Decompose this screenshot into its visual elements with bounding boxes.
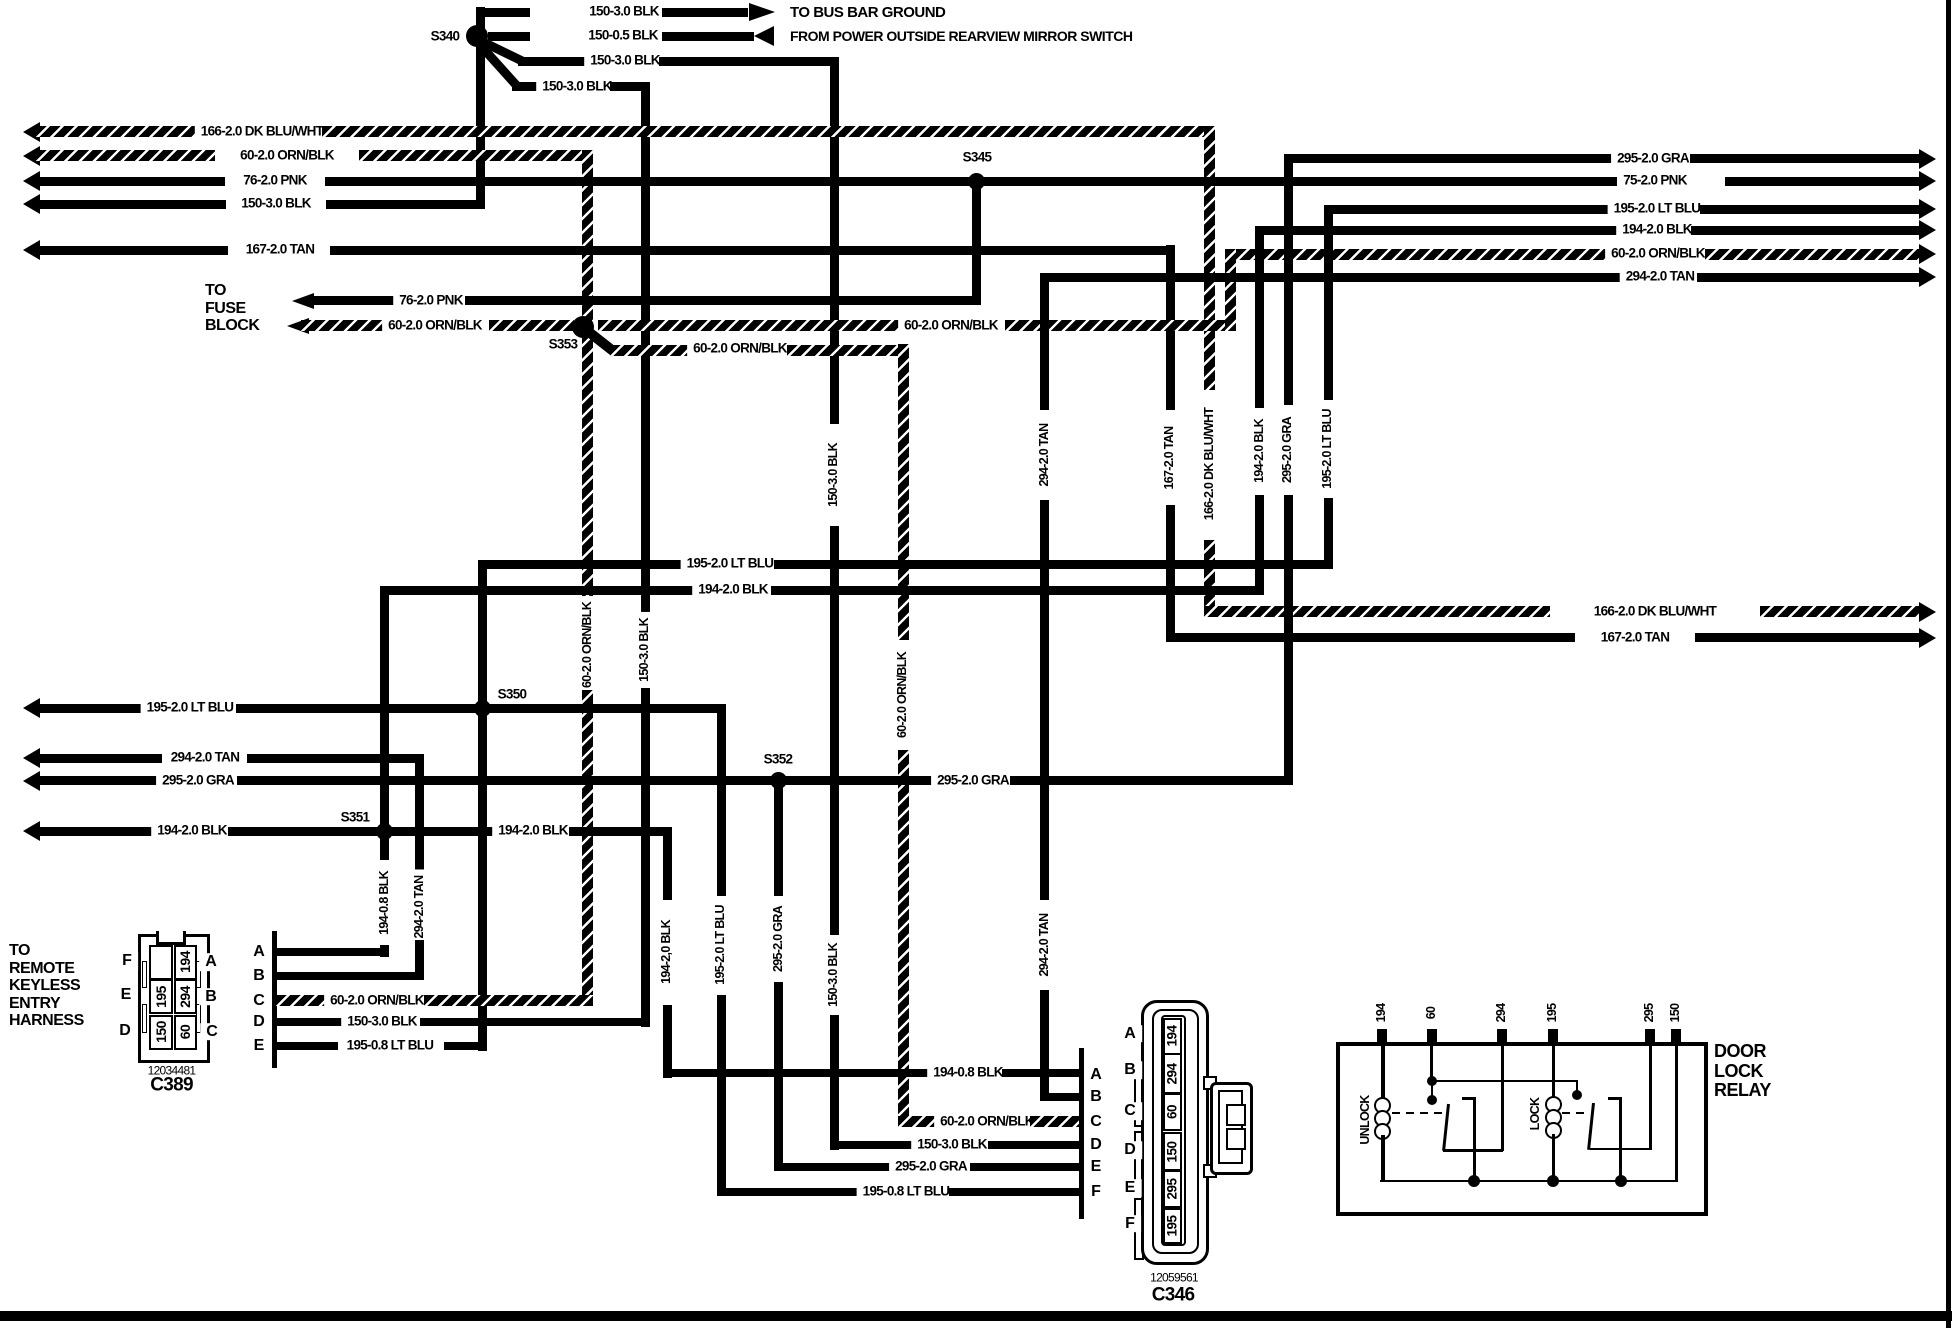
wire 150-3.0 BLK vertical to C346 D seg2 [830,526,839,935]
value label 194-2.0 BLK left [151,824,233,839]
value label 295-2.0 GRA left [156,773,240,788]
splice label S350 [498,688,527,703]
wire 150-3.0 BLK vertical from S340 [476,7,485,208]
arrow 195-2.0 LT BLU right [1919,199,1936,219]
pin letter A C389 drawing [199,953,223,971]
wire 150-3.0 BLK left seg2 [326,200,485,209]
wire 60-2.0 ORN/BLK fuse seg2 [489,320,574,331]
value label 194-2.0 BLK mid [692,583,774,598]
wire 195-0.8 LT BLU C346 pin F seg1 [717,1188,864,1196]
wire 194-2.0 BLK right seg1 [1264,226,1623,235]
wire 195-2.0 LT BLU right seg2 [1700,205,1921,214]
wire 60-2.0 ORN/BLK branch to C346 seg2 [787,345,909,356]
wire 194-2.0 BLK vertical seg2 [1255,495,1264,595]
wire 194-2.0 BLK left seg1 [36,827,161,836]
value label 60-2.0 ORN/BLK fuse [382,318,488,333]
value label 60-2.0 ORN/BLK [234,148,340,163]
wire 194-2.0 BLK mid seg2 [771,586,1264,595]
wire 195-2.0 LT BLU mid seg1 [487,560,686,569]
connector name C346 [1152,1286,1195,1307]
value label 166-2.0 DK BLU/WHT [195,124,329,139]
relay wire lock output [1590,1148,1650,1151]
wire 194-2.0 BLK mid2 seg2 [569,827,672,836]
wire 195-0.8 LT BLU C346 pin F seg2 [949,1188,1079,1196]
wire 194-2.0 BLK vertical seg1 [1255,226,1264,408]
wire 194-2.0 BLK S351 vertical seg1 [380,586,389,860]
value label 194-2.0 BLK vertical [1253,413,1267,489]
splice S353 [572,316,594,338]
relay pin 295 stub [1645,1029,1655,1043]
pin letter E C346 drawing [1119,1180,1142,1198]
wire 60-2.0 ORN/BLK vertical seg1 [582,150,593,600]
wire 166-2.0 DK BLU/WHT vertical seg1 [1204,126,1215,390]
wire 150-0.5 BLK seg1 [488,32,530,41]
wire 194-0.8 BLK C346 pin A seg2 [1002,1069,1079,1077]
connector C389 side strips [142,961,147,989]
wire 150-3.0 BLK branch3 seg1 [518,57,591,66]
wire C389 pin A [276,948,389,956]
value label 150-3.0 BLK branch4 [536,80,618,95]
wire 295-2.0 GRA right seg1 [1292,154,1618,163]
relay pin 294 wire [1501,1044,1504,1151]
pin letter A C346 [1084,1066,1108,1084]
wire 195-2.0 LT BLU vertical seg1 [1324,205,1333,401]
wire 195-2.0 LT BLU vertical to C346 F seg1 [717,704,726,897]
value label 60-2.0 ORN/BLK pin C [324,993,430,1008]
connector C389 body [138,934,210,1063]
relay pin label 150 [1669,998,1683,1029]
relay node lock rail [1547,1175,1559,1187]
wire 166-2.0 DK BLU/WHT seg2 [322,126,1215,137]
pin letter D C389 drawing [113,1022,137,1040]
wire 195-0.8 LT BLU C389 pin E seg1 [276,1042,338,1050]
wire 167-2.0 TAN seg1 [36,246,228,255]
wire 76-2.0 PNK seg1 [36,177,225,186]
wire 195-2.0 LT BLU left seg2 [236,704,726,713]
wire 194-2.0 BLK right seg2 [1691,226,1921,235]
value label 150-3.0 BLK vertical2 [638,612,652,688]
wire 194-0.8 BLK C346 pin A seg1 [663,1069,935,1077]
value label 195-0.8 LT BLU pin E [341,1039,440,1054]
value label 194-2.0 BLK right [1616,223,1698,238]
arrow 60-2.0 ORN/BLK to fuse block [287,318,309,334]
value label 60-2.0 ORN/BLK vertical2 [896,646,910,744]
value label 150-0.5 BLK [582,29,664,44]
relay dashed link unlock [1392,1112,1443,1114]
value label 75-2.0 PNK right [1617,174,1693,189]
wire 167-2.0 TAN right seg1 [1166,633,1575,642]
switch unlock fixed contact [1462,1097,1476,1100]
relay wire 60 to lock contact [1432,1080,1578,1082]
arrow 166-2.0 DK BLU/WHT right [1919,602,1936,622]
pin letter F C346 [1085,1183,1107,1201]
value label 194-2.0 BLK vertical2 [660,914,674,990]
relay pin 195 stub [1548,1029,1558,1043]
arrow 194-2.0 BLK right [1919,220,1936,240]
pin letter D C389 [247,1014,271,1032]
wire 195-2.0 LT BLU S350 vertical [478,560,487,1051]
wire 166-2.0 DK BLU/WHT right seg2 [1760,606,1921,617]
wire S340 branch diagonal lower [474,38,521,89]
value label 60-2.0 ORN/BLK pin C C346 [934,1114,1040,1129]
switch lock fixed contact [1608,1097,1622,1100]
node C389 bus [272,931,277,1068]
arrow 76-2.0 PNK [23,171,40,191]
relay node lock out rail [1615,1175,1627,1187]
text TO BUS BAR GROUND [790,4,945,21]
relay pin label 195 [1546,998,1560,1029]
pin letter F C346 drawing [1119,1215,1141,1233]
wire 294-2.0 TAN vertical to C389 B seg2 [415,940,424,980]
relay node lock contact [1572,1090,1582,1100]
wire 294-2.0 TAN right seg2 [1697,273,1921,282]
splice label S352 [764,753,793,768]
value label 150-3.0 BLK branch3 [584,54,666,69]
splice label S353 [549,338,578,353]
wire 60-2.0 ORN/BLK S353 right seg1 [598,320,902,331]
wire 150-3.0 BLK left seg1 [36,200,226,209]
value label 150-3.0 BLK pin D [341,1015,423,1030]
arrow 60-2.0 ORN/BLK right [1919,244,1936,264]
relay pin label 60 [1425,1001,1439,1026]
value label 295-2.0 GRA vertical2 [772,900,786,978]
arrow to bus bar ground [749,3,775,21]
wire 195-2.0 LT BLU right seg1 [1332,205,1613,214]
arrow 167-2.0 TAN right [1919,628,1936,648]
pin letter A C346 drawing [1118,1025,1142,1043]
wire 294-2.0 TAN left seg2 [247,754,424,763]
wire 150-3.0 BLK vertical to C389 D seg1 [641,82,650,612]
wire 60-2.0 ORN/BLK C346 pin C seg2 [1030,1116,1079,1127]
value label 294-2.0 TAN vertical2 [413,870,427,945]
text DOOR LOCK RELAY [1714,1042,1771,1101]
pin letter F C389 drawing [116,952,138,970]
wire 60-2.0 ORN/BLK vertical seg2 [582,690,593,1006]
wire 294-2.0 TAN C346 pin B [1040,1093,1079,1101]
connector name C389 [150,1076,193,1097]
pin letter D C346 drawing [1118,1142,1142,1160]
wire 60-2.0 ORN/BLK C389 pin C seg1 [276,995,332,1006]
wire 167-2.0 TAN vertical seg2 [1166,505,1175,642]
pin letter B C389 [247,967,271,985]
relay pin label 295 [1643,998,1657,1029]
wire 294-2.0 TAN vertical seg1b [1040,500,1049,900]
wire 167-2.0 TAN right seg2 [1695,633,1921,642]
value label 294-2.0 TAN vertical [1038,908,1052,983]
wire 150-3.0 BLK to bus bar ground seg2 [662,8,748,17]
wire 150-3.0 BLK vertical to C389 D seg2 [641,688,650,1027]
splice S350 [474,700,491,717]
arrow 75-2.0 PNK right [1919,171,1936,191]
relay ground rail [1380,1180,1678,1183]
switch lock arm [1587,1103,1594,1150]
node C346 bus [1079,1048,1084,1219]
wire 295-2.0 GRA vertical seg1 [1284,154,1293,405]
wire 60-2.0 ORN/BLK right seg1 [1236,249,1612,260]
relay pin 294 stub [1497,1029,1507,1043]
part number 12059561 [1150,1270,1198,1285]
arrow 295-2.0 GRA left [23,771,40,791]
wire 295-2.0 GRA vertical seg2 [1284,495,1293,785]
relay pin 60 wire [1430,1044,1433,1082]
value label 150-3.0 BLK vertical lower [827,937,841,1013]
value label 194-0.8 BLK pin A [927,1066,1009,1081]
connector C346 lock tab [1203,1076,1217,1090]
value label 60-2.0 ORN/BLK branch [687,342,793,357]
wire S345 vertical drop [972,181,981,305]
wire 194-2.0 BLK S351 vertical seg2 [380,945,389,957]
wire 150-3.0 BLK C389 pin D seg1 [276,1018,345,1026]
connector C346 left notches [1134,1065,1144,1127]
relay lock coil wire lower [1552,1134,1556,1181]
wire 295-2.0 GRA C346 pin E seg1 [774,1163,892,1171]
wire 150-3.0 BLK branch3 seg2 [659,57,839,66]
relay wire unlock to rail [1473,1151,1476,1181]
relay pin 60 stub [1427,1029,1437,1043]
wire 60-2.0 ORN/BLK branch to C346 seg1 [610,345,693,356]
wire 295-2.0 GRA left seg2 [237,776,936,785]
arrow 166-2.0 DK BLU/WHT [23,122,40,142]
splice S340 [466,25,488,47]
wire 294-2.0 TAN vertical to C389 B seg1 [415,754,424,875]
value label 195-2.0 LT BLU right [1608,202,1707,217]
relay node unlock rail [1468,1175,1480,1187]
wire 150-3.0 BLK vertical to C346 D seg1 [830,57,839,424]
value label 195-2.0 LT BLU left [141,701,240,716]
arrow 76-2.0 PNK to fuse block [292,293,314,309]
pin letter B C389 drawing [199,988,223,1006]
wire 194-2.0 BLK vertical to C346 A seg1 [663,827,672,901]
value label 195-2.0 LT BLU mid [681,557,780,572]
relay node unlock contact [1427,1095,1437,1105]
wire 150-3.0 BLK to bus bar ground seg1 [484,8,530,17]
relay pin 194 stub [1377,1029,1387,1043]
value label 195-0.8 LT BLU pin F [857,1184,956,1199]
wire 295-2.0 GRA S352 vertical seg1 [774,785,783,896]
relay pin 150 wire [1675,1044,1678,1181]
arrow 294-2.0 TAN left [23,748,40,768]
coil LOCK [1545,1096,1562,1113]
wire 195-2.0 LT BLU left seg1 [36,704,147,713]
relay pin 150 stub [1671,1029,1681,1043]
wire 75-2.0 PNK right seg [1725,177,1921,186]
wire 60-2.0 ORN/BLK vertical to C346 seg1 [898,344,909,640]
arrow from power mirror switch [754,26,774,46]
wire S340 branch diagonal upper [476,35,526,65]
pin letter D C346 [1084,1136,1108,1154]
coil UNLOCK [1374,1097,1391,1114]
value label 167-2.0 TAN vertical [1163,420,1177,495]
value label 60-2.0 ORN/BLK right [1605,247,1711,262]
splice S352 [770,772,787,789]
wire 295-2.0 GRA C346 pin E seg2 [970,1163,1079,1171]
relay node 60 upper [1427,1076,1437,1086]
pin letter B C346 drawing [1118,1062,1142,1080]
text UNLOCK [1359,1089,1373,1150]
splice label S345 [963,151,992,166]
pin letter C C389 drawing [200,1023,224,1041]
wire 166-2.0 DK BLU/WHT seg1 [36,126,202,137]
connector C346 body [1141,1000,1209,1266]
value label 195-2.0 LT BLU vertical [1321,403,1335,495]
wire 60-2.0 ORN/BLK S353 right seg2 [1005,320,1236,331]
wire 294-2.0 TAN right seg1 [1049,273,1623,282]
border bottom bar [0,1311,1952,1321]
arrow 194-2.0 BLK left [23,821,40,841]
relay pin 295 wire [1649,1044,1652,1150]
arrow 60-2.0 ORN/BLK [23,146,40,166]
wire 150-3.0 BLK branch4 seg1 [512,82,543,91]
wire C389 pin B [276,972,424,980]
wire 60-2.0 ORN/BLK C389 pin C seg2 [424,995,593,1006]
value label 60-2.0 ORN/BLK S353 right [898,318,1004,333]
pin letter C C389 [247,992,271,1010]
wire 294-2.0 TAN vertical seg2 [1040,990,1049,1101]
wire 295-2.0 GRA mid seg2 [1010,776,1293,785]
value label 166-2.0 DK BLU/WHT vertical [1203,402,1217,526]
part number 12034481 [148,1064,196,1079]
splice label S351 [341,811,370,826]
pin letter B C346 [1084,1088,1108,1106]
wire 150-3.0 BLK vertical to C346 D seg3 [830,1015,839,1150]
wire 294-2.0 TAN left seg1 [36,754,162,763]
connector C389 cells [149,945,172,980]
relay box DOOR LOCK RELAY [1336,1042,1707,1216]
relay pin label 194 [1375,998,1389,1029]
wire 60-2.0 ORN/BLK fuse seg1 [301,320,390,331]
wire 194-2.0 BLK left seg2 [228,827,497,836]
wire 167-2.0 TAN seg2 [330,246,1175,255]
value label 295-2.0 GRA pin E [889,1159,973,1174]
value label 167-2.0 TAN right [1595,630,1676,645]
wire 166-2.0 DK BLU/WHT right seg1 [1204,606,1550,617]
value label 295-2.0 GRA vertical [1281,411,1295,489]
pin letter E C389 [248,1038,271,1056]
wire 150-3.0 BLK C346 pin D seg1 [830,1141,916,1149]
splice label S340 [431,30,460,45]
relay pin label 294 [1495,998,1509,1029]
value label 60-2.0 ORN/BLK vertical [581,596,595,694]
wire 195-2.0 LT BLU mid seg2 [774,560,1333,569]
value label 76-2.0 PNK [237,174,313,189]
value label 150-3.0 BLK vertical [827,437,841,513]
wire 150-3.0 BLK branch4 seg2 [610,82,650,91]
value label 294-2.0 TAN vertical upper [1038,418,1052,493]
splice S351 [376,823,393,840]
value label 294-2.0 TAN right [1620,270,1701,285]
wire 195-2.0 LT BLU vertical to C346 F seg2 [717,995,726,1196]
text TO REMOTE KEYLESS ENTRY HARNESS [9,942,84,1030]
wire 60-2.0 ORN/BLK seg1 [36,150,215,161]
wire 150-3.0 BLK C346 pin D seg2 [988,1141,1079,1149]
value label 166-2.0 DK BLU/WHT right [1588,604,1722,619]
wire 60-2.0 ORN/BLK C346 pin C seg1 [898,1116,944,1127]
wire 60-2.0 ORN/BLK riser [1225,249,1236,331]
wire 195-2.0 LT BLU vertical seg2 [1324,498,1333,569]
arrow 150-3.0 BLK left [23,194,40,214]
value label 76-2.0 PNK fuse [393,293,469,308]
wire 150-3.0 BLK C389 pin D seg2 [420,1018,650,1026]
border right edge [1946,0,1951,1328]
text FROM POWER OUTSIDE REARVIEW MIRROR SWITCH [790,28,1132,44]
relay wire unlock output [1443,1149,1503,1152]
wire S353 diagonal branch [582,325,618,356]
pin letter E C389 drawing [115,986,138,1004]
wire 76-2.0 PNK fuse seg1 [306,296,402,305]
wire 60-2.0 ORN/BLK seg2 [359,150,593,161]
pin letter C C346 drawing [1118,1102,1142,1120]
wire 294-2.0 TAN vertical seg1 [1040,273,1049,410]
relay wire 60 contact drop [1431,1082,1433,1098]
arrow 295-2.0 GRA right [1919,149,1936,169]
value label 194-0.8 BLK vertical [378,865,392,941]
pin letter C C346 [1084,1113,1108,1131]
text TO FUSE BLOCK [205,282,259,335]
relay dashed link lock [1562,1112,1589,1114]
wire 60-2.0 ORN/BLK vertical to C346 seg2 [898,750,909,1127]
wire 60-2.0 ORN/BLK right seg2 [1705,249,1921,260]
wire 150-0.5 BLK seg2 [662,32,754,41]
arrow 167-2.0 TAN [23,240,40,260]
relay wire lock contact drop [1576,1080,1578,1093]
value label 150-3.0 BLK pin D C346 [911,1138,993,1153]
value label 295-2.0 GRA mid [931,773,1015,788]
text LOCK [1529,1092,1543,1137]
value label 195-2.0 LT BLU vertical2 [714,899,728,991]
relay unlock coil wire lower [1381,1135,1385,1182]
wire 295-2.0 GRA left seg1 [36,776,158,785]
arrow 195-2.0 LT BLU left [23,698,40,718]
pin letter E C346 [1085,1158,1108,1176]
switch unlock arm [1442,1104,1449,1151]
wire 195-0.8 LT BLU C389 pin E seg2 [444,1042,487,1050]
value label 150-3.0 BLK left [235,197,317,212]
relay unlock coil wire upper [1381,1044,1385,1098]
wire 295-2.0 GRA right seg2 [1690,154,1921,163]
value label 150-3.0 BLK [583,5,665,20]
value label 167-2.0 TAN [240,243,321,258]
value label 194-2.0 BLK mid2 [492,824,574,839]
value label 295-2.0 GRA right [1611,151,1695,166]
connector C346 pin boxes [1163,1018,1182,1055]
value label 294-2.0 TAN left [165,751,246,766]
relay lock coil wire upper [1552,1044,1556,1097]
arrow 294-2.0 TAN right [1919,267,1936,287]
wire 194-2.0 BLK mid seg1 [389,586,693,595]
pin letter A C389 [247,944,271,962]
splice S345 [968,173,985,190]
wire 76-2.0 PNK fuse seg2 [465,296,981,305]
wire 194-2.0 BLK vertical to C346 A seg2 [663,1005,672,1078]
wire 166-2.0 DK BLU/WHT vertical seg2 [1204,540,1215,617]
wire 295-2.0 GRA S352 vertical seg2 [774,982,783,1171]
wire 167-2.0 TAN vertical seg1 [1166,245,1175,410]
wire 76-2.0 PNK seg2 [325,177,1617,186]
